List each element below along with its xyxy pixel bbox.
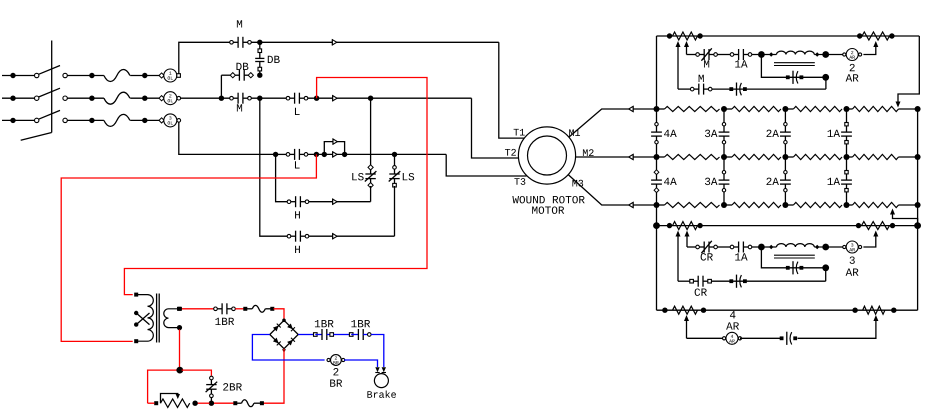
rotor resistor row2 seg2 — [732, 154, 781, 159]
contact L (row 2) — [277, 153, 286, 155]
contact 4A (column, rows 1-2) — [656, 109, 658, 132]
rotor resistor row2 seg4 — [847, 156, 853, 158]
wire row2 down to H row1 — [276, 154, 288, 201]
rotor resistor row1 seg2 — [732, 106, 781, 111]
contact 1BR (brake relay) — [216, 308, 223, 310]
contact M (line contactor, top) — [232, 41, 239, 43]
relay coil 4AR — [723, 337, 726, 340]
tap to CR2 row — [677, 233, 679, 281]
transformer core — [156, 294, 158, 343]
label T2 — [505, 149, 516, 156]
blue wire between 1BR contacts — [334, 334, 350, 336]
red wire row2 tap to transformer primary bottom — [61, 154, 316, 341]
disconnect switch blade pole 1 — [35, 73, 39, 77]
resistor (top left) — [673, 32, 698, 40]
node M-DB-L junction — [251, 97, 286, 99]
wire L row2 with bypass loop — [308, 153, 446, 155]
contact DB (vertical) — [259, 42, 261, 49]
label T3 — [514, 178, 525, 185]
wire 2OL to M contact — [180, 97, 229, 99]
left rail below grid — [656, 205, 658, 310]
wire M2 rotor lead — [576, 156, 657, 158]
contact CR (NC) — [698, 246, 705, 248]
red wire 2BR node to rheostat — [197, 402, 210, 404]
contact 2A (column, rows 1-2) — [784, 109, 786, 132]
fuse (brake rail) — [260, 401, 264, 405]
node secondary bottom junction — [179, 329, 181, 370]
rotor resistor row3 seg4 — [847, 204, 853, 206]
wire 1A to reactor (3AR) — [752, 246, 777, 248]
tap to M2 row — [677, 44, 679, 90]
contact M (seal-in) — [692, 88, 699, 90]
wire LS2 to H row2 — [394, 186, 396, 236]
limit switch LS (right) — [394, 169, 396, 174]
4AR section line — [657, 309, 918, 311]
tap left to 4AR coil — [686, 318, 688, 339]
contact M (NC, plugging) — [698, 54, 705, 56]
capacitor (4AR) — [786, 332, 788, 345]
contact 4A (column, rows 2-3) — [656, 157, 658, 180]
blue wire to brake right lead — [371, 335, 384, 368]
wire L2 supply lead — [2, 97, 35, 99]
fuse FU2 — [104, 92, 130, 104]
wire CR2 row — [678, 280, 690, 282]
wire H row2 to LS2 — [309, 235, 395, 237]
wire M1 rotor lead — [569, 109, 657, 137]
contact 1BR (first) — [314, 333, 318, 337]
disconnect switch tie bar — [51, 41, 53, 133]
wire fuse to OL3 — [130, 119, 161, 121]
wire 3AR to resistor tap — [863, 233, 875, 247]
capacitor (CR2 row) — [711, 280, 825, 282]
label MOTOR — [532, 206, 564, 213]
overload heater 3OL — [159, 118, 164, 123]
wire 1A to reactor — [752, 54, 777, 56]
wire to 1A (3AR) — [717, 246, 730, 248]
disconnect switch blade pole 2 — [35, 96, 39, 100]
resistor (3AR left) — [673, 222, 698, 230]
3AR section line — [657, 225, 918, 227]
grid row3 junction dots — [654, 202, 660, 208]
contact 3A (column, rows 2-3) — [723, 157, 725, 180]
blue wire bridge + to 1BR contacts — [298, 334, 313, 336]
contact 1BR (second) — [349, 333, 353, 337]
wire drop to motor T1 — [499, 42, 525, 138]
contact M (phase 2) — [232, 97, 239, 99]
wire CR-1A row — [687, 246, 696, 248]
wire drop to motor T2 — [472, 98, 519, 158]
wire tap to 4AR coil — [687, 337, 723, 339]
wire drop to motor T3 — [446, 154, 526, 176]
contact H (hoist, row 1) — [289, 201, 296, 203]
wire pole 2 to fuse — [67, 97, 104, 99]
capacitor branch (3AR) — [761, 247, 825, 268]
wire M-1A row — [687, 54, 696, 56]
contact 1A (3AR section) — [732, 246, 739, 248]
wire pole 1 to fuse — [67, 75, 104, 77]
rotor resistor row1 seg3 — [793, 106, 842, 111]
red wire bridge bottom to brake rail — [263, 349, 284, 404]
tap to M-1A row — [686, 44, 688, 55]
label M1 — [569, 129, 580, 136]
rotor resistor row2 seg1 — [665, 154, 720, 159]
relay coil 3AR — [843, 245, 846, 248]
wire LS1 to H row1 — [370, 186, 372, 202]
wire M2 row — [678, 88, 690, 90]
wire M3 rotor lead — [568, 175, 656, 205]
red wire row1 tap to transformer primary top — [124, 78, 427, 295]
contact 2BR (brake relay) — [210, 380, 212, 385]
wire row1 down to H row2 — [260, 98, 287, 236]
rotor resistor row3 seg1 — [665, 202, 720, 207]
rotor resistor row3 seg2 — [732, 202, 781, 207]
disconnect switch blade pole 3 — [35, 118, 39, 122]
contact 1A (accelerating) — [732, 54, 739, 56]
bypass loop over row 2 — [324, 142, 344, 155]
resistor (3AR right) — [862, 222, 890, 230]
brake solenoid — [374, 374, 388, 388]
label M2 — [583, 149, 594, 156]
jog from right rail to row3 resistor — [893, 212, 918, 226]
wire L to T2 drop — [308, 97, 472, 99]
relay coil 2AR — [843, 53, 846, 56]
wire 4AR coil to capacitor — [740, 337, 782, 339]
rotor resistor row3 seg3 — [793, 202, 842, 207]
red wire 1BR to fuse — [235, 308, 246, 310]
rotor resistor row1 seg1 — [665, 106, 720, 111]
red wire fuse to 2BR node — [213, 402, 233, 404]
capacitor branch (top) — [761, 55, 825, 78]
reactor (top) — [769, 52, 773, 56]
contact 1A (column, rows 1-2) — [846, 109, 848, 132]
grid row1 junction dots — [654, 106, 660, 112]
label T1 — [514, 129, 525, 136]
blue wire bridge - to 2BR coil — [252, 335, 324, 361]
red wire secondary top to 1BR — [181, 308, 214, 310]
wire 3OL down to row 2 — [179, 122, 274, 154]
wire 1OL to M contact line — [179, 42, 230, 73]
label WOUND ROTOR — [512, 196, 584, 203]
wound rotor motor stator circle — [518, 127, 575, 184]
rotor resistor row2 seg3 — [793, 154, 842, 159]
fuse FU3 — [104, 114, 130, 126]
wire L1 supply lead — [2, 75, 35, 77]
resistor (top right) — [862, 32, 890, 40]
wire reactor to 2AR coil — [826, 54, 845, 56]
contact 1A (column, rows 2-3) — [846, 157, 848, 180]
wire capacitor to right tap — [798, 318, 876, 339]
relay coil 2BR — [327, 358, 330, 361]
contact CR (square terminals) — [692, 280, 699, 282]
transformer primary winding — [136, 295, 153, 342]
wire L3 supply lead — [2, 119, 35, 121]
node DB junction — [257, 73, 262, 78]
wire to 1A — [717, 54, 730, 56]
red wire fuse to bridge — [274, 309, 285, 321]
contact DB (horizontal) — [233, 74, 240, 76]
reactor (3AR) — [769, 245, 773, 249]
red wire rheostat to loop corner — [148, 402, 155, 404]
wire DB row to phase2 — [221, 74, 230, 76]
wire pole 3 to fuse — [67, 119, 104, 121]
transformer primary taps — [134, 311, 138, 315]
capacitor (M2 row) — [712, 88, 826, 90]
wire M2 row up to node — [825, 77, 827, 89]
contact H (hoist, row 2) — [289, 235, 296, 237]
contact 2A (column, rows 2-3) — [784, 157, 786, 180]
wire reactor to 3AR coil — [826, 246, 845, 248]
grid right rail — [917, 109, 919, 310]
blue wire 2BR coil to brake left lead — [344, 360, 378, 367]
bridge rectifier — [270, 320, 298, 348]
contact L (lower speed, row 1) — [288, 97, 295, 99]
rheostat (brake resistor) — [161, 399, 190, 407]
overload heater 1OL — [159, 73, 164, 78]
rotor resistor row1 seg4 — [847, 108, 853, 110]
wire 2AR to resistor tap — [863, 44, 875, 55]
top section right rail with arrow to row1 — [898, 36, 919, 104]
fuse FU1 — [104, 70, 130, 82]
top section top line — [657, 35, 920, 37]
limit switch LS (left) — [370, 169, 372, 174]
red wire node to 2BR top — [182, 370, 212, 376]
resistor (4AR left) — [673, 306, 698, 314]
resistor (4AR right) — [863, 306, 885, 314]
contact 3A (column, rows 1-2) — [723, 109, 725, 132]
wire fuse to OL1 — [130, 75, 161, 77]
wire CR2 row up to node — [825, 268, 827, 281]
wound rotor motor rotor circle — [528, 136, 567, 175]
top section left rail — [656, 36, 658, 109]
wire M contact to T1 drop — [251, 41, 498, 43]
wire H row1 to LS1 — [309, 201, 371, 203]
fuse (brake circuit) — [245, 308, 252, 310]
red wire loop left side — [148, 370, 179, 403]
tap to CR-1A row — [686, 233, 688, 247]
grid row2 junction dots — [654, 154, 660, 160]
wire fuse to OL2 — [130, 97, 161, 99]
label M3 — [572, 180, 583, 187]
transformer secondary winding — [164, 309, 179, 328]
wire row2 to LS2 — [394, 154, 396, 166]
overload heater 2OL — [159, 96, 164, 101]
wire row1 to LS1 — [370, 98, 372, 166]
